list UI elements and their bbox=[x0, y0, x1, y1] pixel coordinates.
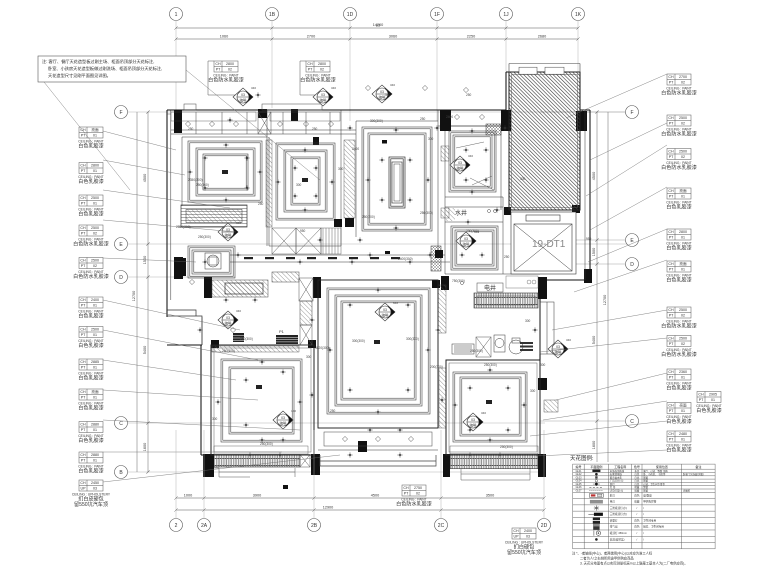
svg-text:5400: 5400 bbox=[143, 346, 147, 354]
svg-text:03: 03 bbox=[458, 161, 462, 165]
row grid line D right bbox=[540, 263, 625, 265]
svg-text:编号: 编号 bbox=[575, 464, 581, 469]
left CH/PT callout bbox=[78, 359, 103, 382]
svg-text:工程名称: 工程名称 bbox=[614, 464, 626, 469]
svg-text:白色: 白色 bbox=[634, 519, 640, 523]
svg-text:卧、小孩房、 书房等: 卧、小孩房、 书房等 bbox=[643, 472, 666, 476]
svg-text:1: 1 bbox=[175, 12, 178, 18]
svg-text:2B: 2B bbox=[311, 523, 318, 529]
svg-text:白色防水乳胶漆: 白色防水乳胶漆 bbox=[396, 501, 432, 508]
svg-text:2500: 2500 bbox=[91, 328, 99, 332]
svg-text:950: 950 bbox=[586, 237, 592, 241]
svg-text:03: 03 bbox=[241, 93, 245, 97]
svg-text:02: 02 bbox=[681, 342, 685, 346]
svg-text:平面图例: 平面图例 bbox=[590, 464, 602, 469]
P1 striped box bbox=[276, 329, 298, 344]
row grid line F right bbox=[540, 111, 625, 113]
svg-text:2500: 2500 bbox=[91, 226, 99, 230]
bath radiator stripes bbox=[520, 342, 533, 351]
svg-text:02: 02 bbox=[93, 264, 97, 268]
svg-text:白色乳胶漆: 白色乳胶漆 bbox=[666, 418, 691, 425]
svg-text:1K: 1K bbox=[575, 12, 582, 18]
column C8 bbox=[204, 277, 212, 298]
west wall step detail bbox=[167, 310, 202, 345]
svg-text:250(300): 250(300) bbox=[420, 211, 433, 215]
right CH/PT callout bbox=[666, 431, 691, 454]
left upholstery callout bbox=[72, 480, 111, 508]
svg-text:01: 01 bbox=[93, 459, 97, 463]
column C16 bbox=[313, 137, 319, 145]
svg-text:250: 250 bbox=[330, 409, 336, 413]
svg-text:CH: CH bbox=[215, 62, 221, 66]
lobby west column bbox=[441, 276, 449, 290]
svg-text:03: 03 bbox=[321, 93, 325, 97]
kitchen dark wall block bbox=[180, 258, 186, 276]
svg-text:250(300): 250(300) bbox=[362, 215, 375, 219]
svg-text:咖啡: 咖啡 bbox=[225, 320, 232, 325]
svg-text:01: 01 bbox=[681, 409, 685, 413]
svg-text:甲供购买物: 甲供购买物 bbox=[643, 500, 656, 504]
svg-text:三防吸顶灯(小): 三防吸顶灯(小) bbox=[610, 506, 627, 510]
svg-text:亮面: 亮面 bbox=[679, 261, 687, 266]
svg-text:2500: 2500 bbox=[91, 196, 99, 200]
svg-text:3500: 3500 bbox=[486, 494, 494, 498]
bottom grid line 2A bbox=[203, 430, 205, 519]
ceiling diffusers bbox=[185, 85, 484, 332]
bottom grid bubble 2 bbox=[170, 519, 183, 532]
svg-text:PT: PT bbox=[81, 232, 86, 236]
svg-text:250: 250 bbox=[258, 202, 264, 206]
left row bubble C bbox=[115, 417, 128, 430]
svg-text:CH: CH bbox=[307, 62, 313, 66]
svg-text:4500: 4500 bbox=[143, 174, 147, 182]
fan symbol master top bbox=[372, 83, 395, 103]
svg-text:咖啡: 咖啡 bbox=[280, 420, 287, 425]
left CH/PT callout bbox=[73, 258, 109, 281]
top callout right bbox=[300, 61, 336, 84]
svg-text:2700: 2700 bbox=[679, 75, 687, 79]
svg-text:CH: CH bbox=[668, 337, 674, 341]
left CH/PT callout bbox=[78, 452, 103, 475]
svg-text:白色: 白色 bbox=[634, 525, 640, 529]
svg-text:03: 03 bbox=[380, 90, 384, 94]
top callout left bbox=[208, 61, 244, 84]
svg-text:电井: 电井 bbox=[484, 284, 496, 292]
svg-text:2880: 2880 bbox=[91, 453, 99, 457]
duct hatch cell bbox=[300, 301, 312, 325]
top grid bubble 1D bbox=[344, 8, 357, 21]
svg-text:02: 02 bbox=[681, 314, 685, 318]
svg-text:300: 300 bbox=[520, 177, 526, 181]
elevator 19-DT1 bbox=[511, 212, 576, 274]
svg-text:3. 天花分地面有点以实际测量标高m以上隐蔽工基本人为(二厂: 3. 天花分地面有点以实际测量标高m以上隐蔽工基本人为(二厂电供应商)。 bbox=[580, 561, 688, 566]
row grid line D bbox=[128, 276, 235, 278]
left CH/PT callout bbox=[78, 163, 103, 186]
top grid bubble 1J bbox=[500, 8, 513, 21]
svg-text:CH: CH bbox=[668, 432, 674, 436]
bedroom 2 ceiling coves bbox=[276, 143, 335, 220]
svg-text:2800: 2800 bbox=[91, 164, 99, 168]
leader lines bbox=[103, 131, 176, 150]
balcony left column R bbox=[311, 454, 320, 475]
bottom right upholstery callout bbox=[505, 528, 544, 556]
svg-text:CH: CH bbox=[668, 262, 674, 266]
svg-text:白色乳胶漆: 白色乳胶漆 bbox=[78, 211, 103, 218]
svg-text:CH: CH bbox=[80, 298, 86, 302]
svg-text:PT: PT bbox=[669, 376, 674, 380]
column C9 bbox=[313, 277, 321, 298]
svg-text:石膏顶角线: 石膏顶角线 bbox=[610, 472, 623, 476]
fan symbol lobby bbox=[456, 230, 479, 250]
right small hatch box bbox=[544, 400, 558, 412]
living room ceiling coves bbox=[327, 288, 430, 414]
shaft top cap bbox=[509, 63, 580, 65]
svg-text:03: 03 bbox=[281, 416, 285, 420]
svg-text:白色乳胶漆: 白色乳胶漆 bbox=[78, 178, 103, 185]
svg-text:2500: 2500 bbox=[91, 259, 99, 263]
svg-text:2800: 2800 bbox=[679, 230, 687, 234]
svg-text:卧室门头饰面(详图): 卧室门头饰面(详图) bbox=[683, 472, 704, 476]
note box bbox=[38, 56, 186, 82]
bath fixtures bbox=[452, 335, 523, 354]
svg-text:详图纸: 详图纸 bbox=[683, 489, 691, 493]
bottom grid bubble 2A bbox=[198, 519, 211, 532]
svg-text:厨房、卫生间专用: 厨房、卫生间专用 bbox=[643, 525, 664, 529]
svg-text:PT: PT bbox=[81, 169, 86, 173]
svg-text:12700: 12700 bbox=[603, 295, 607, 306]
right CH/PT callout bbox=[661, 307, 697, 330]
corridor dark mark bbox=[385, 251, 390, 254]
svg-text:2A: 2A bbox=[201, 523, 208, 529]
svg-text:三防吸顶灯(大): 三防吸顶灯(大) bbox=[610, 512, 627, 516]
svg-text:02: 02 bbox=[681, 155, 685, 159]
svg-text:注 *、-者轴线(中心)、者两端用(中心)以对应为准工人标: 注 *、-者轴线(中心)、者两端用(中心)以对应为准工人标 bbox=[572, 551, 653, 556]
duct X cell 2 bbox=[300, 325, 312, 345]
svg-text:白色防水乳胶漆: 白色防水乳胶漆 bbox=[661, 164, 697, 171]
left CH/PT callout bbox=[78, 422, 103, 445]
svg-text:2885: 2885 bbox=[91, 360, 99, 364]
svg-text:CH: CH bbox=[80, 196, 86, 200]
column at wall end bbox=[345, 218, 354, 227]
svg-text:02: 02 bbox=[416, 492, 420, 496]
svg-text:01: 01 bbox=[681, 268, 685, 272]
svg-text:03: 03 bbox=[93, 487, 97, 491]
svg-text:2680: 2680 bbox=[538, 35, 546, 39]
bath shower diagonals bbox=[456, 142, 494, 190]
svg-text:F: F bbox=[119, 110, 122, 116]
svg-text:3060: 3060 bbox=[389, 35, 397, 39]
living room outer walls bbox=[318, 280, 438, 428]
svg-text:340: 340 bbox=[291, 409, 296, 413]
svg-text:CH: CH bbox=[668, 116, 674, 120]
svg-text:1D: 1D bbox=[347, 12, 354, 18]
row grid line C right bbox=[540, 420, 625, 422]
svg-text:PT: PT bbox=[81, 366, 86, 370]
balcony parapet left bbox=[214, 468, 295, 477]
top grid bubble 1 bbox=[170, 8, 183, 21]
svg-text:1B: 1B bbox=[269, 12, 276, 18]
svg-text:备注: 备注 bbox=[695, 464, 701, 469]
column C11 bbox=[538, 378, 547, 390]
bottom grid bubble 2B bbox=[308, 519, 321, 532]
svg-text:白色乳胶漆: 白色乳胶漆 bbox=[696, 407, 721, 414]
bottom grid line 2 bbox=[175, 430, 177, 519]
svg-text:窗/飘窗: 窗/飘窗 bbox=[643, 493, 652, 497]
svg-text:CH: CH bbox=[80, 226, 86, 230]
left row bubble B bbox=[115, 466, 128, 479]
svg-text:2400(300): 2400(300) bbox=[398, 257, 413, 261]
svg-text:250: 250 bbox=[312, 127, 318, 131]
svg-text:轨道(窗帘盒): 轨道(窗帘盒) bbox=[610, 537, 625, 541]
svg-text:LED灯带(小): LED灯带(小) bbox=[610, 489, 624, 493]
svg-text:250(300): 250(300) bbox=[222, 349, 235, 353]
svg-text:14200: 14200 bbox=[373, 23, 384, 27]
washer dark hatch band bbox=[474, 293, 538, 308]
bottom grid line 2C bbox=[440, 430, 442, 519]
svg-text:白色乳胶漆: 白色乳胶漆 bbox=[666, 277, 691, 284]
balcony right column L bbox=[443, 454, 450, 477]
svg-text:CH: CH bbox=[668, 370, 674, 374]
svg-text:03: 03 bbox=[556, 345, 560, 349]
fan symbol corridor-right bbox=[548, 338, 571, 358]
svg-text:01: 01 bbox=[93, 304, 97, 308]
svg-text:2850(300): 2850(300) bbox=[176, 225, 191, 229]
svg-text:1J: 1J bbox=[503, 12, 509, 18]
plan inner wall lines bbox=[167, 110, 540, 455]
svg-text:340: 340 bbox=[251, 86, 256, 90]
scattered ceiling marks bbox=[187, 92, 537, 457]
leader to fan 2 bbox=[300, 61, 316, 95]
svg-text:300: 300 bbox=[525, 319, 531, 323]
svg-text:250(300): 250(300) bbox=[240, 337, 253, 341]
svg-text:UP: UP bbox=[514, 535, 520, 539]
east wall inner line bbox=[584, 110, 586, 280]
svg-text:2480: 2480 bbox=[679, 432, 687, 436]
svg-text:03: 03 bbox=[226, 316, 230, 320]
svg-text:2500: 2500 bbox=[679, 116, 687, 120]
top overall dimension 14200 bbox=[174, 26, 579, 29]
right row bubble D bbox=[626, 258, 639, 271]
svg-text:300: 300 bbox=[212, 417, 218, 421]
svg-text:12900: 12900 bbox=[323, 506, 334, 510]
living balcony diffusers bbox=[342, 436, 413, 441]
fan symbol foyer bbox=[218, 221, 241, 241]
legend table bbox=[573, 464, 715, 549]
svg-text:2: 2 bbox=[175, 523, 178, 529]
svg-text:白色乳胶漆: 白色乳胶漆 bbox=[78, 468, 103, 475]
svg-text:CH: CH bbox=[80, 259, 86, 263]
balcony X box left bbox=[300, 455, 310, 468]
bedroom2 closet bbox=[272, 228, 296, 254]
svg-text:F: F bbox=[630, 110, 633, 116]
grid line 1F bbox=[436, 21, 438, 122]
row grid line F bbox=[128, 111, 630, 113]
column C4 bbox=[440, 110, 451, 131]
svg-text:白色防水乳胶漆: 白色防水乳胶漆 bbox=[208, 77, 244, 84]
hatched kitchen band bbox=[212, 280, 268, 297]
svg-text:天花图例:: 天花图例: bbox=[570, 454, 594, 462]
svg-text:2500: 2500 bbox=[679, 337, 687, 341]
svg-text:2800: 2800 bbox=[226, 62, 234, 66]
svg-text:白色防水乳胶漆: 白色防水乳胶漆 bbox=[73, 241, 109, 248]
right row bubble C bbox=[626, 415, 639, 428]
svg-text:300(300): 300(300) bbox=[370, 119, 383, 123]
master dark mark bbox=[382, 140, 387, 144]
svg-text:250(300): 250(300) bbox=[484, 363, 497, 367]
bottom segment dimensions bbox=[174, 496, 545, 499]
svg-text:CH: CH bbox=[698, 393, 704, 397]
left row bubble E bbox=[115, 238, 128, 251]
svg-text:340: 340 bbox=[385, 93, 391, 97]
svg-text:PT: PT bbox=[404, 492, 409, 496]
shaft roof vent 2 bbox=[545, 67, 564, 74]
svg-text:CH: CH bbox=[80, 390, 86, 394]
hatched wall left of bath piece2 bbox=[441, 208, 449, 218]
living balcony inner rect bbox=[324, 432, 432, 446]
svg-text:300: 300 bbox=[540, 363, 546, 367]
balcony hatch bottom-right bbox=[450, 454, 538, 469]
svg-text:CH: CH bbox=[80, 481, 86, 485]
right CH/PT callout bbox=[661, 74, 697, 97]
fan symbol top-left bbox=[233, 86, 256, 106]
svg-text:250(300): 250(300) bbox=[470, 349, 483, 353]
grid line 1 bbox=[175, 21, 177, 111]
svg-text:CH: CH bbox=[668, 189, 674, 193]
striped speaker box small bbox=[233, 333, 244, 342]
balcony left column L bbox=[203, 454, 214, 477]
svg-text:300: 300 bbox=[306, 355, 312, 359]
water shaft circles bbox=[461, 210, 497, 285]
svg-text:CH: CH bbox=[80, 164, 86, 168]
svg-text:03: 03 bbox=[383, 308, 387, 312]
left CH/PT callout bbox=[78, 127, 103, 150]
bedroom 1 ceiling coves bbox=[188, 141, 262, 202]
right offset callout 2905 bbox=[696, 392, 721, 415]
svg-text:白色: 白色 bbox=[634, 493, 640, 497]
svg-text:PT: PT bbox=[81, 333, 86, 337]
svg-text:UP: UP bbox=[81, 487, 87, 491]
svg-text:2905: 2905 bbox=[709, 393, 717, 397]
svg-text:CH: CH bbox=[668, 404, 674, 408]
svg-text:01: 01 bbox=[93, 134, 97, 138]
svg-text:白色防水乳胶漆: 白色防水乳胶漆 bbox=[73, 273, 109, 280]
svg-text:4020(300): 4020(300) bbox=[315, 346, 330, 350]
svg-text:PT: PT bbox=[216, 68, 221, 72]
svg-text:水井: 水井 bbox=[455, 209, 467, 217]
svg-text:PT: PT bbox=[669, 342, 674, 346]
left CH/PT callout bbox=[78, 389, 103, 412]
svg-text:2350(300): 2350(300) bbox=[188, 178, 203, 182]
svg-text:1060: 1060 bbox=[220, 35, 228, 39]
column C20 bbox=[538, 277, 547, 299]
svg-text:白色乳胶漆: 白色乳胶漆 bbox=[666, 204, 691, 211]
fan symbol top-mid bbox=[313, 86, 336, 106]
shaft roof vent 1 bbox=[519, 67, 537, 74]
svg-text:白色乳胶漆: 白色乳胶漆 bbox=[78, 437, 103, 444]
bottom grid line 2B bbox=[313, 430, 315, 519]
svg-text:C: C bbox=[119, 421, 123, 427]
svg-text:PT: PT bbox=[669, 268, 674, 272]
svg-text:PT: PT bbox=[669, 438, 674, 442]
balcony parapet right bbox=[461, 468, 530, 480]
svg-text:PT: PT bbox=[81, 428, 86, 432]
svg-text:白色防水乳胶漆: 白色防水乳胶漆 bbox=[661, 351, 697, 358]
svg-text:340: 340 bbox=[236, 221, 241, 225]
svg-text:01: 01 bbox=[93, 169, 97, 173]
bath duct crosshatch bbox=[486, 124, 501, 135]
right row bubble E bbox=[626, 234, 639, 247]
top band bay window strip bbox=[171, 112, 256, 121]
svg-text:250: 250 bbox=[504, 255, 510, 259]
column C7 bbox=[174, 257, 183, 279]
svg-text:PT: PT bbox=[81, 134, 86, 138]
right CH/PT callout bbox=[666, 188, 691, 211]
svg-text:CH: CH bbox=[80, 328, 86, 332]
svg-text:340: 340 bbox=[468, 154, 473, 158]
column C17 bbox=[211, 340, 219, 348]
svg-text:PT: PT bbox=[81, 264, 86, 268]
top grid bubble 1K bbox=[572, 8, 585, 21]
svg-text:01: 01 bbox=[93, 428, 97, 432]
grid line 1K bbox=[577, 21, 579, 73]
svg-text:CH: CH bbox=[668, 150, 674, 154]
svg-text:浴霸灯: 浴霸灯 bbox=[610, 519, 618, 523]
svg-text:340: 340 bbox=[390, 83, 395, 87]
svg-text:PT: PT bbox=[81, 459, 86, 463]
row grid line C bbox=[128, 422, 545, 424]
svg-text:300(300): 300(300) bbox=[352, 339, 365, 343]
svg-text:250: 250 bbox=[420, 117, 426, 121]
svg-text:CH: CH bbox=[668, 308, 674, 312]
svg-text:C: C bbox=[630, 419, 634, 425]
svg-text:03: 03 bbox=[471, 418, 475, 422]
right CH/PT callout bbox=[661, 149, 697, 172]
left CH/PT callout bbox=[78, 297, 103, 320]
svg-text:01: 01 bbox=[681, 236, 685, 240]
svg-text:250(300): 250(300) bbox=[466, 229, 479, 233]
svg-text:白色防水乳胶漆: 白色防水乳胶漆 bbox=[300, 77, 336, 84]
svg-text:2400: 2400 bbox=[524, 529, 532, 533]
svg-text:PT: PT bbox=[669, 409, 674, 413]
svg-text:01: 01 bbox=[681, 438, 685, 442]
right CH/PT callout bbox=[661, 115, 697, 138]
svg-text:2700: 2700 bbox=[307, 35, 315, 39]
svg-text:排气扇: 排气扇 bbox=[610, 525, 618, 529]
fan symbol living bbox=[375, 301, 398, 321]
row grid line E bbox=[128, 243, 630, 245]
svg-text:CH: CH bbox=[80, 453, 86, 457]
svg-text:340: 340 bbox=[236, 309, 241, 313]
column C15 bbox=[435, 250, 443, 258]
svg-text:01: 01 bbox=[93, 396, 97, 400]
foyer top hatch band bbox=[272, 272, 299, 282]
svg-text:白色防水乳胶漆: 白色防水乳胶漆 bbox=[661, 323, 697, 330]
column C19 bbox=[432, 280, 440, 288]
column C1 bbox=[174, 110, 182, 133]
svg-text:2500: 2500 bbox=[679, 308, 687, 312]
svg-text:白色乳胶漆: 白色乳胶漆 bbox=[78, 342, 103, 349]
water shaft hatch bbox=[446, 208, 455, 221]
svg-text:CH: CH bbox=[668, 75, 674, 79]
fan symbol foyer lower bbox=[218, 309, 241, 329]
right CH/PT callout bbox=[666, 229, 691, 252]
hatched wall bottom right vertical bbox=[438, 285, 446, 333]
bath top-right coves bbox=[449, 131, 496, 192]
svg-text:1000: 1000 bbox=[184, 494, 192, 498]
right vertical dimension chain bbox=[597, 112, 608, 462]
hatched wall left of bath piece1 bbox=[441, 146, 449, 161]
left CH/PT callout bbox=[73, 225, 109, 248]
